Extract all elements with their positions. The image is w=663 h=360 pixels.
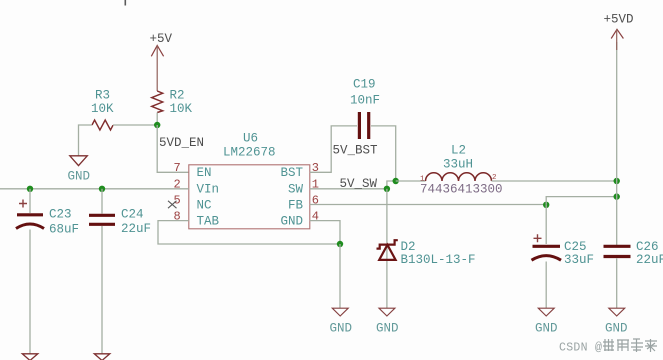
svg-text:C26: C26 (636, 240, 659, 254)
capacitor C25 (polarized) (532, 234, 595, 267)
svg-text:R2: R2 (170, 89, 185, 103)
wire output vertical (616, 42, 618, 245)
diode D2 (schottky) (377, 240, 476, 267)
svg-text:VIn: VIn (197, 183, 220, 197)
junction output lower (614, 193, 620, 199)
pin 2 VIn (174, 178, 220, 197)
junction FB node (543, 202, 549, 208)
svg-text:10K: 10K (91, 102, 114, 116)
svg-text:L2: L2 (451, 143, 466, 157)
power flag +5V (150, 32, 173, 91)
capacitor C19 (350, 78, 380, 140)
ground GND (U6) (330, 308, 353, 335)
wire VIn main rail (0, 188, 189, 190)
svg-text:TAB: TAB (197, 215, 220, 229)
junction output upper (614, 178, 620, 184)
svg-text:74436413300: 74436413300 (420, 182, 503, 196)
capacitor C26 (604, 240, 663, 267)
pin 6 FB (288, 193, 319, 212)
wire L2 left lead (396, 180, 426, 182)
wire C19 right down to SW node (371, 126, 396, 181)
svg-text:GND: GND (605, 322, 628, 336)
junction C23 (27, 186, 33, 192)
wire FB node up and right (546, 197, 617, 205)
wire D2 branch (386, 189, 388, 308)
svg-text:GND: GND (376, 322, 399, 336)
wire C26 to ground (616, 258, 618, 308)
svg-text:6: 6 (312, 193, 319, 207)
wire C23 top (29, 189, 31, 213)
ground (C23, clipped at bottom) (22, 354, 38, 360)
wire down to ground (U6) (339, 244, 341, 308)
IC U6 LM22678 body (189, 131, 310, 229)
wire C23 to ground (29, 230, 31, 354)
svg-text:C23: C23 (49, 208, 72, 222)
pin 7 EN (174, 161, 212, 180)
svg-text:5VD_EN: 5VD_EN (159, 136, 204, 150)
watermark CSDN (559, 339, 657, 355)
wire BST to C19 (310, 126, 357, 172)
net label 5V_BST (333, 144, 379, 158)
wire C24 top (101, 189, 103, 214)
pin 1 SW (288, 178, 319, 197)
wire R3 right to node (113, 124, 157, 126)
svg-text:C19: C19 (353, 78, 376, 92)
pin 8 TAB (174, 210, 220, 229)
svg-text:NC: NC (197, 198, 212, 212)
svg-text:3: 3 (312, 161, 319, 175)
svg-text:LM22678: LM22678 (223, 146, 276, 160)
net label 5V_SW (340, 177, 378, 191)
svg-text:GND: GND (281, 215, 304, 229)
svg-text:SW: SW (288, 183, 304, 197)
svg-text:+5VD: +5VD (604, 13, 634, 27)
wire R3 left to ground (79, 125, 93, 156)
inductor L2 (420, 143, 503, 196)
svg-text:5V_BST: 5V_BST (333, 144, 379, 158)
svg-text:GND: GND (68, 170, 91, 184)
svg-text:GND: GND (535, 322, 558, 336)
capacitor C24 (89, 208, 151, 237)
svg-text:33uF: 33uF (564, 253, 594, 267)
wire R2 bottom to node (156, 113, 158, 126)
junction SW node lower (384, 186, 390, 192)
wire C24 to ground (101, 226, 103, 354)
junction C24 (99, 186, 105, 192)
wire SW jog up (387, 181, 396, 189)
wire C25 top (545, 205, 547, 244)
svg-text:1: 1 (312, 178, 319, 192)
ground (C24, clipped at bottom) (94, 354, 110, 360)
svg-text:68uF: 68uF (49, 223, 79, 237)
ground GND (C25) (535, 308, 558, 335)
svg-text:C25: C25 (564, 240, 587, 254)
svg-text:C24: C24 (121, 208, 144, 222)
junction node 5VD_EN (154, 122, 160, 128)
wire node to EN pin (157, 125, 189, 172)
svg-text:CSDN @: CSDN @ (559, 342, 602, 355)
ground GND (D2) (376, 308, 399, 335)
svg-text:R3: R3 (95, 89, 110, 103)
svg-text:EN: EN (197, 166, 212, 180)
svg-text:5V_SW: 5V_SW (340, 177, 378, 191)
svg-text:33uH: 33uH (443, 157, 473, 171)
net label 5VD_EN (159, 136, 204, 150)
pin 5 NC (not connected) (168, 193, 212, 212)
svg-text:10nF: 10nF (350, 93, 380, 107)
pin 4 GND (281, 210, 320, 229)
wire C25 to ground (545, 262, 547, 309)
svg-text:BST: BST (281, 166, 304, 180)
svg-text:GND: GND (330, 322, 353, 336)
ground GND (C26) (605, 308, 628, 335)
wire SW pin (310, 188, 387, 190)
wire pin4 GND (310, 221, 340, 244)
wire stub top edge (124, 0, 126, 6)
svg-text:22uF: 22uF (121, 222, 151, 236)
wire TAB to gnd rail (158, 221, 340, 244)
svg-text:FB: FB (288, 198, 304, 212)
svg-text:B130L-13-F: B130L-13-F (401, 253, 476, 267)
wire FB pin (310, 204, 546, 206)
junction SW node upper (393, 178, 399, 184)
svg-text:8: 8 (174, 210, 181, 224)
pin 3 BST (281, 161, 320, 180)
resistor R3 (91, 89, 114, 131)
ground GND (R3) (68, 156, 91, 184)
svg-text:2: 2 (174, 178, 181, 192)
svg-text:5: 5 (174, 193, 181, 207)
svg-text:D2: D2 (401, 240, 416, 254)
svg-text:+5V: +5V (150, 32, 173, 46)
power flag +5VD (604, 13, 634, 51)
svg-text:10K: 10K (170, 102, 193, 116)
svg-text:7: 7 (174, 161, 181, 175)
svg-text:22uF: 22uF (636, 253, 663, 267)
wire L2 right lead to output (492, 180, 617, 182)
svg-text:4: 4 (312, 210, 319, 224)
capacitor C23 (polarized) (16, 200, 79, 237)
junction GND net (337, 241, 343, 247)
resistor R2 (152, 89, 193, 117)
svg-text:U6: U6 (243, 131, 258, 145)
